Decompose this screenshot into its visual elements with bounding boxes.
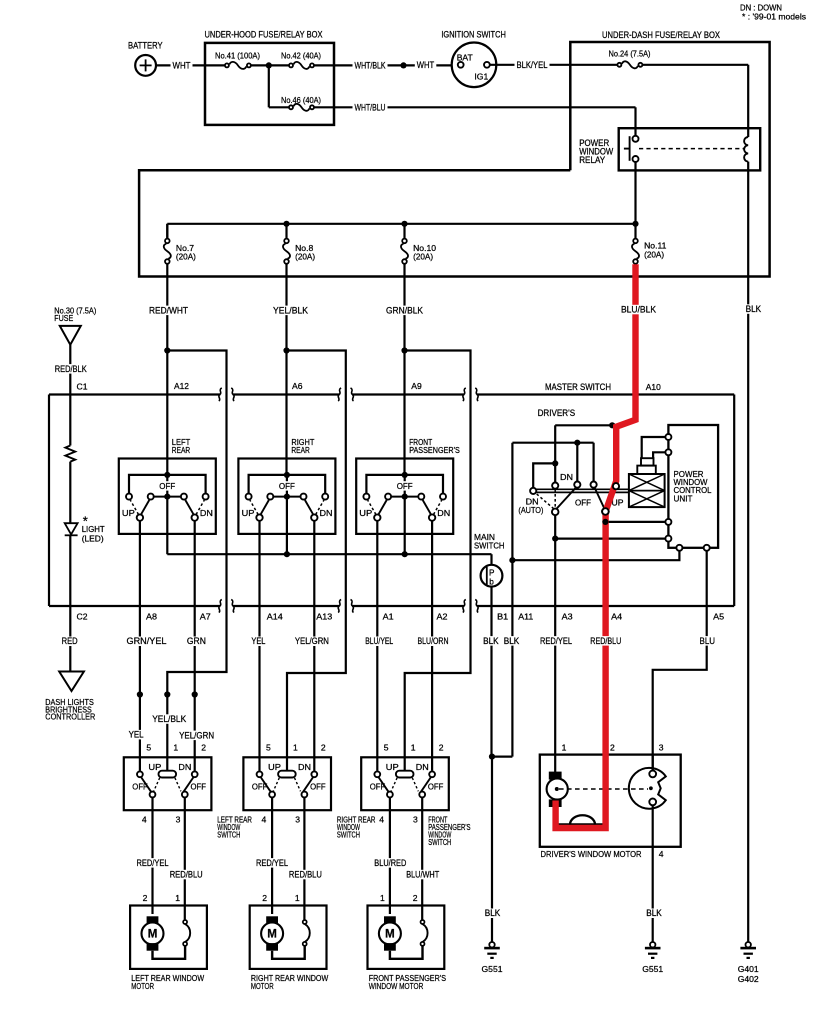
switch moving contact right [305, 500, 313, 514]
svg-text:MASTER SWITCH: MASTER SWITCH [545, 382, 611, 392]
svg-text:DN: DN [437, 508, 450, 518]
switch T-bar wire [366, 475, 443, 497]
power window control unit box [668, 425, 718, 548]
switch inner contact link [388, 496, 421, 498]
wire colour labels below master switch [125, 637, 169, 647]
switch RIGHT REAR WINDOW SWITCH box [243, 757, 331, 810]
switch pivot contact 3 [419, 792, 425, 798]
svg-text:A8: A8 [146, 612, 157, 622]
wire control unit to solenoid plunger right [653, 452, 665, 458]
motor lower wire loop [272, 946, 305, 959]
junction dot off bus front passenger [402, 551, 408, 557]
svg-text:DN: DN [560, 472, 573, 482]
svg-text:BLK: BLK [483, 636, 499, 646]
svg-text:REAR: REAR [291, 445, 309, 455]
label YEL/BLK feed [150, 714, 188, 724]
driver motor brush lower [549, 799, 562, 807]
motor armature [142, 923, 164, 945]
svg-text:UP: UP [386, 762, 399, 772]
switch OFF label [157, 481, 177, 490]
switch output wire right [431, 521, 433, 771]
svg-text:RELAY: RELAY [579, 155, 605, 165]
svg-text:RED/BLU: RED/BLU [590, 636, 621, 646]
svg-text:2: 2 [262, 893, 267, 903]
svg-text:RED/WHT: RED/WHT [149, 305, 189, 315]
motor rotary contact [305, 924, 310, 942]
switch OFF label [395, 481, 415, 490]
svg-text:G401: G401 [738, 964, 759, 974]
svg-text:UNDER-DASH FUSE/RELAY BOX: UNDER-DASH FUSE/RELAY BOX [602, 30, 720, 40]
svg-text:OFF: OFF [310, 782, 326, 792]
wire right pivot junction to control unit [605, 521, 665, 523]
svg-text:RED/YEL: RED/YEL [137, 858, 169, 868]
switch moving contact right [423, 500, 431, 514]
switch contact dn [311, 771, 317, 777]
svg-text:2: 2 [143, 893, 148, 903]
switch pivot contact 4 [387, 792, 393, 798]
switch centre wire to off bus [404, 475, 406, 554]
junction dot bus No.10 [401, 221, 407, 227]
switch feed junction dot [284, 472, 290, 478]
svg-text:C2: C2 [77, 612, 88, 622]
svg-text:DN: DN [298, 762, 311, 772]
svg-text:G551: G551 [482, 964, 503, 974]
junction dot WHT bus [266, 62, 272, 68]
svg-text:4: 4 [659, 849, 664, 859]
master switch boundary top [49, 393, 220, 395]
wire pin4 from gear [652, 805, 654, 942]
svg-text:5: 5 [146, 743, 151, 753]
svg-text:UP: UP [612, 498, 624, 508]
circuit breaker bump on motor wire [570, 815, 595, 824]
wire battery to under-hood box (WHT) [156, 64, 205, 66]
switch feed junction dot [402, 472, 408, 478]
wire relay lower contact to fuse bus [634, 162, 636, 239]
contact OFF [591, 482, 597, 488]
battery [135, 55, 156, 76]
svg-text:No.24 (7.5A): No.24 (7.5A) [609, 48, 651, 58]
label BLU/WHT front passenger [404, 870, 441, 880]
svg-text:OFF: OFF [428, 782, 444, 792]
fuse No.11 (20A) [632, 244, 639, 259]
under-dash fuse/relay box outline [139, 42, 770, 277]
svg-text:IGNITION SWITCH: IGNITION SWITCH [441, 30, 506, 40]
power window relay box [619, 128, 761, 170]
switch rocker capsule [278, 771, 296, 778]
motor brush upper [384, 916, 396, 924]
solenoid plunger pedestal [637, 466, 656, 474]
wire LED down to C2 (RED) [69, 535, 71, 671]
motor RIGHT REAR WINDOW MOTOR box [250, 906, 327, 969]
svg-text:2: 2 [413, 893, 418, 903]
svg-text:RED/BLU: RED/BLU [170, 870, 203, 880]
svg-text:4: 4 [142, 815, 147, 825]
switch feed junction dot [164, 472, 170, 478]
wire bus to fuse No.10 [403, 224, 405, 239]
pin 3 wire [421, 797, 423, 919]
control unit terminal 5 [676, 545, 682, 551]
junction dot A4 control unit branch [602, 519, 608, 525]
svg-text:OFF: OFF [191, 782, 207, 792]
svg-text:LIGHT: LIGHT [82, 524, 106, 534]
switch inner contact right [418, 494, 424, 500]
svg-text:1: 1 [411, 743, 416, 753]
svg-text:FUSE: FUSE [54, 313, 73, 323]
solenoid X-box [629, 474, 665, 507]
svg-text:3: 3 [659, 743, 664, 753]
wire feed to DN contact [555, 424, 612, 426]
switch FRONT PASSENGER'S WINDOW SWITCH box [361, 757, 449, 810]
svg-text:OFF: OFF [279, 481, 295, 491]
switch outer contact left [363, 494, 369, 500]
switch contact dn [429, 771, 435, 777]
svg-text:DN: DN [200, 508, 213, 518]
relay dashed link to coil [639, 148, 744, 150]
contact UP (over highlight) [613, 483, 619, 489]
switch output wire right [313, 521, 315, 771]
fuse No.10 (20A) [401, 244, 408, 259]
svg-text:SWITCH: SWITCH [337, 830, 360, 840]
svg-text:1: 1 [293, 743, 298, 753]
svg-text:YEL: YEL [129, 730, 144, 740]
relay armature [629, 136, 631, 161]
ground G401 [746, 942, 751, 947]
switch moving contacts [261, 777, 271, 792]
label RED/BLU left rear [168, 870, 205, 880]
svg-text:b: b [489, 577, 494, 586]
junction dot fuse bus at No.11 [632, 221, 638, 227]
svg-text:YEL/GRN: YEL/GRN [295, 636, 329, 646]
gear contact upper [649, 771, 656, 778]
svg-text:UNIT: UNIT [674, 493, 694, 503]
wire IG1 to fuse No.24 (BLK/YEL) [490, 64, 618, 66]
svg-text:A5: A5 [713, 612, 724, 622]
switch pivot contact 4 [150, 792, 156, 798]
switch moving contact right [185, 500, 193, 514]
wire branch feed front passenger [405, 351, 471, 771]
svg-text:CONTROLLER: CONTROLLER [45, 712, 95, 722]
svg-text:WHT/BLU: WHT/BLU [355, 102, 386, 112]
svg-text:No.41 (100A): No.41 (100A) [215, 50, 260, 60]
svg-text:A13: A13 [316, 612, 332, 622]
off bus wire to main switch [167, 553, 491, 555]
master switch boundary left [48, 395, 50, 607]
LED dash light [65, 523, 78, 534]
master switch boundary bottom [49, 605, 220, 607]
switch centre wire to off bus [286, 475, 288, 554]
svg-text:PASSENGER'S: PASSENGER'S [409, 445, 460, 455]
svg-text:DRIVER'S WINDOW MOTOR: DRIVER'S WINDOW MOTOR [541, 849, 642, 859]
svg-text:UP: UP [122, 508, 135, 518]
wire branch feed right rear [287, 351, 346, 771]
driver motor drive gear [629, 768, 666, 809]
driver's window motor box [540, 755, 681, 847]
wire resistor to LED [69, 462, 71, 524]
svg-text:(20A): (20A) [295, 252, 315, 262]
terminal BAT [458, 62, 464, 68]
wire YEL/BLK column from fuse No.8 to master switch [285, 264, 287, 475]
motor brush lower [147, 943, 159, 951]
control unit terminal 1 [665, 434, 671, 440]
wire fuse No.41 to junction [251, 64, 269, 66]
svg-text:M: M [148, 929, 158, 941]
connector triangle to dash lights brightness controller [59, 672, 84, 692]
svg-text:1: 1 [295, 893, 300, 903]
motor FRONT PASSENGER'S WINDOW MOTOR box [368, 906, 445, 969]
svg-text:YEL/GRN: YEL/GRN [179, 730, 214, 740]
svg-text:GRN/BLK: GRN/BLK [386, 305, 423, 315]
pin 3 wire [303, 797, 305, 919]
svg-text:(20A): (20A) [176, 252, 196, 262]
svg-text:4: 4 [262, 815, 267, 825]
motor brush lower [384, 943, 396, 951]
wire junction to fuse No.42 [269, 64, 289, 66]
svg-text:REAR: REAR [172, 445, 190, 455]
switch output wire left [139, 521, 141, 771]
switch output wire left [258, 521, 260, 771]
terminal IG1 [484, 62, 490, 68]
svg-text:5: 5 [266, 743, 271, 753]
svg-text:MOTOR: MOTOR [131, 981, 154, 991]
label BLK driver ground wire [644, 909, 664, 919]
svg-text:SWITCH: SWITCH [217, 830, 240, 840]
bar end contact [530, 488, 536, 494]
junction dot OFF branch [574, 440, 580, 446]
switch pivot contact 3 [302, 792, 308, 798]
svg-text:MOTOR: MOTOR [251, 981, 274, 991]
svg-text:A11: A11 [518, 612, 533, 622]
svg-text:BLU/WHT: BLU/WHT [406, 870, 440, 880]
svg-text:1: 1 [562, 743, 567, 753]
svg-text:BLU/ORN: BLU/ORN [418, 636, 449, 646]
svg-text:P: P [489, 568, 495, 577]
motor armature [261, 923, 283, 945]
colour-change dot WHT/BLK to WHT [400, 62, 406, 68]
wire A11 node down [511, 560, 513, 756]
svg-text:BLK: BLK [504, 636, 520, 646]
switch T-bar wire [249, 475, 326, 497]
control unit terminal 4 [665, 536, 671, 542]
switch inner contact right [181, 494, 187, 500]
svg-text:(AUTO): (AUTO) [518, 505, 543, 515]
svg-text:WHT: WHT [173, 60, 192, 70]
switch LEFT REAR WINDOW SWITCH box [124, 757, 212, 810]
driver's switch rocker bar [532, 488, 629, 490]
ground G551 [489, 942, 494, 947]
switch moving contact left [379, 500, 387, 514]
label BLU/RED front passenger [372, 858, 408, 868]
wire OFF contact verticals [576, 443, 578, 482]
svg-text:BLK/YEL: BLK/YEL [517, 60, 548, 70]
svg-text:M: M [267, 929, 277, 941]
control unit terminal 3 [665, 519, 671, 525]
switch moving contact left [141, 500, 149, 514]
wire A11 node to control unit [512, 551, 679, 560]
wire bus to fuse No.8 [285, 224, 287, 239]
relay contact lower [633, 156, 639, 162]
svg-text:A7: A7 [200, 612, 211, 622]
svg-text:DRIVER'S: DRIVER'S [538, 408, 576, 418]
svg-text:M: M [385, 929, 395, 941]
svg-text:UP: UP [242, 508, 255, 518]
svg-text:A10: A10 [646, 382, 661, 392]
switch inner contact right [301, 494, 307, 500]
svg-text:WINDOW MOTOR: WINDOW MOTOR [369, 981, 424, 991]
svg-text:2: 2 [439, 743, 444, 753]
svg-text:A2: A2 [437, 612, 448, 622]
svg-text:5: 5 [384, 743, 389, 753]
fuse No.41 (100A) [229, 62, 246, 69]
switch contact up [374, 771, 380, 777]
svg-text:BLU/YEL: BLU/YEL [365, 636, 393, 646]
svg-text:A9: A9 [411, 381, 422, 391]
junction dot branch right rear feed [283, 347, 289, 353]
svg-text:A14: A14 [267, 612, 283, 622]
wire junction down to fuse No.46 [268, 65, 270, 107]
svg-text:DN: DN [320, 508, 333, 518]
contact DN [552, 483, 558, 489]
svg-text:OFF: OFF [575, 498, 591, 508]
colour change dot left rear pin2 [192, 691, 198, 697]
svg-text:(LED): (LED) [82, 533, 104, 543]
svg-text:RED: RED [62, 636, 78, 646]
driver motor wire underlay to pin 2 [556, 755, 606, 825]
junction dot DN branch [552, 460, 558, 466]
ground G551 [650, 942, 655, 947]
driver's right moving contact [595, 488, 604, 508]
svg-text:WHT: WHT [417, 60, 435, 70]
svg-text:SWITCH: SWITCH [474, 540, 505, 550]
wire left pivot to A3 [554, 515, 556, 754]
wire control unit to solenoid plunger left [642, 437, 666, 458]
control unit terminal 2 [665, 449, 671, 455]
switch LEFT REAR box [119, 459, 216, 534]
motor brush lower [266, 943, 278, 951]
motor lower wire loop [153, 946, 186, 959]
switch pivot contact 3 [182, 792, 188, 798]
svg-text:* : '99-01 models: * : '99-01 models [742, 11, 806, 21]
motor lower wire loop [390, 946, 423, 959]
wire merged BLK to ground [491, 757, 493, 942]
svg-text:(20A): (20A) [413, 252, 433, 262]
svg-text:WHT/BLK: WHT/BLK [355, 60, 386, 70]
svg-text:UP: UP [359, 508, 372, 518]
wire bus to fuse No.7 [166, 224, 168, 239]
fuse No.7 (20A) [164, 244, 171, 259]
svg-text:BLU/RED: BLU/RED [374, 858, 406, 868]
ignition switch [452, 43, 497, 88]
gear contact lower [649, 799, 656, 806]
svg-text:2: 2 [610, 743, 615, 753]
svg-text:BLU: BLU [700, 636, 716, 646]
svg-text:DN: DN [178, 762, 191, 772]
svg-text:DN: DN [416, 762, 429, 772]
label BLU/BLK [619, 305, 658, 315]
svg-text:BATTERY: BATTERY [128, 41, 163, 51]
relay coil [744, 137, 748, 162]
svg-text:1: 1 [175, 893, 180, 903]
colour change dot left rear pin1 [164, 691, 170, 697]
colour change dot left rear pin5 [137, 691, 143, 697]
svg-text:SWITCH: SWITCH [428, 837, 451, 847]
driver motor armature [547, 778, 568, 799]
switch outer contact right [322, 494, 328, 500]
switch RIGHT REAR box [238, 459, 335, 534]
switch outer contact left [126, 494, 132, 500]
svg-text:G402: G402 [738, 974, 759, 984]
switch outer contact right [440, 494, 446, 500]
svg-text:YEL/BLK: YEL/BLK [152, 714, 186, 724]
fuse No.8 (20A) [283, 244, 290, 259]
svg-text:UP: UP [268, 762, 281, 772]
driver motor brush upper [549, 772, 562, 780]
junction dot B1-A11 merge [492, 755, 512, 757]
svg-text:GRN: GRN [187, 636, 206, 646]
svg-text:BLK: BLK [746, 304, 762, 314]
wire fuse No.42 out of box (WHT/BLK) [314, 64, 458, 66]
motor brush upper [147, 916, 159, 924]
svg-text:YEL: YEL [251, 636, 265, 646]
switch moving contact left [261, 500, 269, 514]
motor armature [379, 923, 401, 945]
svg-text:RED/BLK: RED/BLK [55, 364, 87, 374]
svg-text:A6: A6 [292, 381, 303, 391]
switch FRONT PASSENGER'S box [356, 459, 453, 534]
svg-text:UNDER-HOOD FUSE/RELAY BOX: UNDER-HOOD FUSE/RELAY BOX [205, 30, 323, 40]
switch output wire left [376, 521, 378, 771]
wire pin3 into gear [652, 755, 654, 771]
switch OFF label [277, 481, 297, 490]
svg-text:YEL/BLK: YEL/BLK [273, 305, 308, 315]
svg-text:2: 2 [201, 743, 206, 753]
svg-text:RED/BLU: RED/BLU [289, 870, 322, 880]
label RED/BLU right rear [287, 870, 324, 880]
switch inner contact link [270, 496, 303, 498]
wire WHT/BLU to power window relay [314, 106, 636, 108]
pin 4 wire [389, 797, 391, 914]
fuse No.24 (7.5A) [622, 61, 638, 68]
wire OFF contacts horizontal [512, 442, 593, 444]
svg-text:3: 3 [413, 815, 418, 825]
control unit terminal 6 [704, 545, 710, 551]
wire No.30 fuse down (RED/BLK) [69, 345, 71, 446]
pin 4 wire [151, 797, 153, 914]
wire pin1 into motor [554, 755, 556, 772]
switch outer contact right [203, 494, 209, 500]
svg-text:BLK: BLK [485, 908, 501, 918]
svg-text:BLK: BLK [646, 908, 662, 918]
motor brush upper [266, 916, 278, 924]
fuse No.30 connector triangle [60, 326, 81, 345]
switch contact up [137, 771, 143, 777]
driver motor dashed linkage [559, 788, 648, 790]
switch outer contact left [246, 494, 252, 500]
solenoid plunger stem [641, 458, 654, 465]
junction dot bus No.8 [283, 221, 289, 227]
wire DN contact vertical [554, 425, 556, 482]
svg-text:G551: G551 [642, 964, 663, 974]
switch inner contact left [148, 494, 154, 500]
contact middle [574, 482, 580, 488]
svg-text:1: 1 [380, 893, 385, 903]
svg-text:B1: B1 [497, 612, 508, 622]
fuse No.46 (40A) [294, 104, 310, 111]
label YEL/GRN [177, 731, 216, 741]
svg-text:A4: A4 [611, 612, 622, 622]
switch centre wire to off bus [166, 475, 168, 554]
driver's right pivot (over highlight) [602, 508, 609, 515]
label RED/YEL right rear [254, 858, 290, 868]
